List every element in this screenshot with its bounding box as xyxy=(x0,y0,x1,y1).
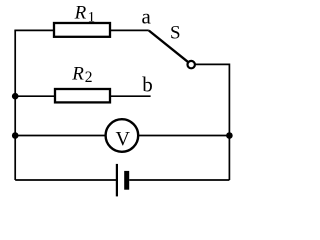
svg-text:R: R xyxy=(74,3,87,24)
svg-text:V: V xyxy=(116,128,131,150)
switch S: lever arm xyxy=(149,31,191,65)
wire: left vertical xyxy=(14,30,16,180)
svg-text:a: a xyxy=(142,4,152,28)
wire: R1 to contact a xyxy=(110,29,149,31)
svg-text:b: b xyxy=(142,73,153,97)
wire: switch to right vertical xyxy=(194,64,229,180)
battery: long thin plate (positive) xyxy=(116,164,118,197)
wire: bottom row left segment xyxy=(15,179,117,181)
switch S: hinge circle xyxy=(188,61,195,68)
wire: R2 row left segment xyxy=(15,95,55,97)
resistor R2 xyxy=(55,89,110,102)
wire: top row from left corner to R1 xyxy=(14,29,54,31)
wire: voltmeter row right segment xyxy=(138,135,229,137)
svg-text:S: S xyxy=(170,23,181,44)
junction node on right wire at voltmeter row xyxy=(226,132,233,139)
resistor R1 xyxy=(54,23,110,37)
wire: bottom row right segment xyxy=(129,179,229,181)
junction node on left wire at R2 row xyxy=(12,93,19,100)
wire: voltmeter row left segment xyxy=(15,135,106,137)
voltmeter V (meter circle) xyxy=(106,119,139,152)
battery: short thick plate (negative) xyxy=(124,171,129,190)
svg-text:1: 1 xyxy=(88,10,96,26)
svg-text:2: 2 xyxy=(85,69,93,86)
junction node on left wire at voltmeter row xyxy=(12,132,19,139)
wire: R2 to open contact b xyxy=(110,95,151,97)
svg-text:R: R xyxy=(71,63,84,84)
